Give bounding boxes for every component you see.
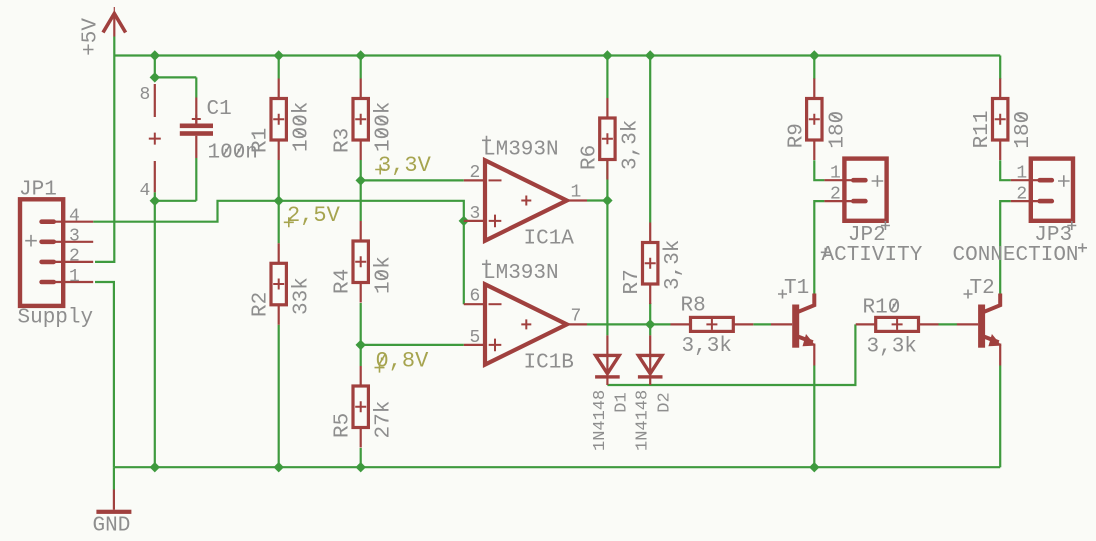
resistor R1 100k: [250, 79, 314, 161]
wire R10 to T2 base: [938, 323, 957, 325]
svg-text:3,3k: 3,3k: [867, 335, 917, 358]
svg-text:4: 4: [69, 207, 80, 227]
resistor R4 10k: [332, 221, 396, 303]
wire 0,8V net to pin 5: [361, 344, 464, 346]
svg-text:3,3V: 3,3V: [378, 153, 432, 178]
svg-text:R2: R2: [250, 292, 273, 317]
svg-text:5: 5: [470, 328, 481, 348]
wire 2,5V net JP1 pin4 to comparator: [93, 201, 464, 222]
svg-text:100k: 100k: [291, 102, 314, 152]
svg-text:T2: T2: [970, 277, 995, 300]
diode D1 1N4148: [591, 335, 632, 451]
resistor R5 27k: [332, 366, 396, 448]
svg-text:T1: T1: [784, 277, 809, 300]
wire T2 emitter to ground rail: [999, 366, 1001, 468]
wire JP1 pin 1 to ground rail: [95, 282, 114, 467]
wire JP3 pin2 to T2 collector: [1000, 201, 1011, 293]
wire D1 anode: [606, 201, 608, 336]
wire IC1B output: [587, 323, 671, 325]
wire +5V vertical to JP1 pin 2: [95, 37, 114, 262]
svg-text:JP1: JP1: [19, 179, 57, 202]
svg-text:3: 3: [69, 227, 80, 247]
IC1 power pins 8/4: [140, 84, 161, 201]
svg-text:4: 4: [140, 181, 151, 201]
svg-text:1: 1: [1016, 164, 1027, 184]
resistor R9 180: [785, 79, 849, 161]
wire GND stub: [113, 467, 115, 489]
resistor R7 3,3k: [621, 223, 685, 305]
svg-text:Supply: Supply: [18, 307, 94, 330]
svg-text:2: 2: [470, 163, 481, 183]
+5V supply symbol: [80, 7, 126, 56]
svg-text:R7: R7: [621, 269, 644, 294]
svg-text:D2: D2: [656, 392, 675, 412]
svg-text:R6: R6: [578, 145, 601, 170]
svg-text:LM393N: LM393N: [483, 262, 559, 285]
svg-text:+5V: +5V: [80, 18, 103, 56]
resistor R11 180: [971, 79, 1035, 161]
svg-text:2: 2: [69, 247, 80, 267]
svg-text:ACTIVITY: ACTIVITY: [822, 244, 923, 267]
resistor R10 3,3k: [856, 297, 939, 359]
wire R6 column: [606, 56, 608, 201]
svg-text:2,5V: 2,5V: [287, 203, 341, 228]
resistor R6 3,3k: [578, 98, 642, 180]
svg-text:3: 3: [470, 204, 481, 224]
svg-text:27k: 27k: [373, 401, 396, 439]
wire JP2 pin2 to T1 collector: [814, 201, 824, 293]
resistor R2 33k: [250, 243, 314, 324]
svg-text:R1: R1: [250, 128, 273, 153]
wire R9 column / JP2 pin1: [814, 56, 824, 181]
wire diode cathodes to R10: [607, 324, 855, 385]
svg-text:6: 6: [470, 287, 481, 307]
svg-text:1N4148: 1N4148: [591, 390, 610, 451]
svg-text:1: 1: [571, 183, 582, 203]
wire R3/R4/R5 column: [360, 56, 362, 468]
op-amp IC1A LM393N: [464, 136, 587, 251]
svg-text:180: 180: [1012, 111, 1035, 149]
capacitor C1 100n: [180, 98, 258, 165]
resistor R3 100k: [332, 79, 396, 161]
svg-text:R5: R5: [332, 413, 355, 438]
svg-text:D1: D1: [613, 392, 632, 412]
svg-text:LM393N: LM393N: [483, 138, 559, 161]
wire R1/R2 column: [278, 56, 280, 468]
svg-text:1N4148: 1N4148: [634, 390, 653, 451]
svg-text:R3: R3: [332, 128, 355, 153]
svg-text:R11: R11: [971, 110, 994, 148]
net label 3,3V: [375, 153, 431, 178]
wire ground rail (bottom): [114, 466, 1000, 468]
svg-text:180: 180: [826, 111, 849, 149]
connector JP3 CONNECTION: [953, 159, 1088, 267]
svg-text:IC1B: IC1B: [524, 351, 574, 374]
svg-text:C1: C1: [207, 98, 232, 121]
transistor T1: [771, 277, 816, 366]
svg-text:10k: 10k: [373, 256, 396, 294]
net label 0,8V: [375, 348, 430, 373]
wire 3,3V net to pin 2: [361, 179, 464, 181]
svg-text:3,3k: 3,3k: [662, 240, 685, 290]
resistor R8 3,3k: [671, 294, 754, 358]
diode D2 1N4148: [634, 335, 675, 451]
svg-text:3,3k: 3,3k: [682, 335, 732, 358]
svg-text:GND: GND: [93, 515, 131, 538]
wire D2 anode: [649, 324, 651, 335]
svg-text:3,3k: 3,3k: [619, 120, 642, 170]
wire R8 to T1 base: [753, 323, 771, 325]
connector JP2 ACTIVITY: [821, 159, 923, 267]
svg-text:R8: R8: [681, 294, 706, 317]
svg-text:CONNECTION: CONNECTION: [953, 244, 1079, 267]
wire node 2,5V to pin 6: [463, 221, 465, 304]
ground GND symbol: [93, 490, 132, 538]
svg-text:IC1A: IC1A: [524, 228, 575, 251]
svg-text:1: 1: [830, 164, 841, 184]
wire IC1A output to R6/D1 node: [587, 199, 607, 201]
wire C1 top lead (green part): [195, 77, 197, 97]
svg-text:33k: 33k: [291, 277, 314, 315]
svg-text:7: 7: [571, 307, 582, 327]
svg-text:R9: R9: [785, 123, 808, 148]
svg-text:2: 2: [830, 185, 841, 205]
wire T1 emitter to ground rail: [813, 366, 815, 468]
svg-text:8: 8: [140, 85, 151, 105]
svg-text:1: 1: [69, 267, 80, 287]
svg-text:R10: R10: [863, 297, 901, 320]
svg-text:100k: 100k: [373, 102, 396, 152]
transistor T2: [957, 277, 1002, 366]
svg-text:0,8V: 0,8V: [376, 348, 430, 373]
connector JP1 Supply: [18, 179, 94, 330]
op-amp IC1B LM393N: [464, 260, 587, 375]
wire +5V rail (top): [114, 54, 1000, 56]
svg-text:R4: R4: [332, 269, 355, 294]
wire IC ground column x155: [155, 56, 197, 468]
svg-text:2: 2: [1016, 185, 1027, 205]
wire R11 column / JP3 pin1: [1000, 56, 1011, 181]
net label 2,5V: [284, 203, 341, 228]
wire R7 column: [649, 56, 651, 325]
wire C1 bottom lead (green part): [195, 158, 197, 201]
